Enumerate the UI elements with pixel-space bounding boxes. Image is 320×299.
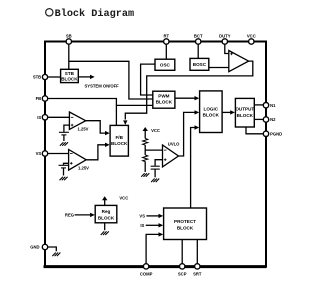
svg-text:BLOCK: BLOCK [98, 216, 115, 221]
svg-text:RT: RT [164, 34, 170, 39]
svg-text:OSC: OSC [160, 62, 171, 67]
svg-text:BLOCK: BLOCK [156, 100, 173, 105]
svg-text:Reg: Reg [102, 209, 111, 214]
svg-text:BLOCK: BLOCK [203, 113, 220, 118]
svg-text:BOSC: BOSC [193, 62, 207, 67]
svg-text:REG: REG [65, 213, 74, 218]
svg-text:1.25V: 1.25V [78, 127, 89, 132]
svg-text:BLOCK: BLOCK [111, 141, 128, 146]
svg-text:DUTY: DUTY [219, 34, 231, 39]
svg-text:STB: STB [33, 75, 41, 80]
svg-text:COMP: COMP [140, 272, 153, 277]
svg-text:GND: GND [30, 245, 39, 250]
svg-text:F/B: F/B [115, 135, 123, 140]
svg-text:VS: VS [36, 151, 42, 156]
svg-text:1.25V: 1.25V [78, 165, 89, 170]
svg-text:SCP: SCP [178, 272, 187, 277]
svg-text:LOGIC: LOGIC [204, 106, 219, 111]
svg-text:VCC: VCC [151, 128, 160, 133]
svg-text:PGND: PGND [270, 131, 282, 136]
svg-text:IS: IS [37, 115, 41, 120]
svg-text:SYSTEM ON/OFF: SYSTEM ON/OFF [85, 84, 120, 89]
svg-text:OUTPUT: OUTPUT [235, 107, 254, 112]
svg-text:VS: VS [139, 214, 145, 219]
svg-text:N1: N1 [270, 103, 276, 108]
svg-text:VCC: VCC [119, 196, 128, 201]
svg-text:BLOCK: BLOCK [237, 113, 254, 118]
svg-text:VCC: VCC [247, 34, 256, 39]
svg-text:N2: N2 [270, 117, 276, 122]
svg-text:FB: FB [36, 96, 42, 101]
svg-text:STB: STB [65, 71, 75, 76]
svg-text:BLOCK: BLOCK [177, 225, 194, 230]
svg-text:SRT: SRT [193, 272, 202, 277]
svg-text:IS: IS [140, 223, 144, 228]
svg-text:BCT: BCT [194, 34, 203, 39]
svg-text:BLOCK: BLOCK [61, 77, 78, 82]
svg-text:PWM: PWM [158, 93, 169, 98]
svg-text:SB: SB [66, 34, 72, 39]
svg-text:PROTECT: PROTECT [174, 219, 196, 224]
svg-text:UVLO: UVLO [168, 142, 180, 147]
svg-text:Block Diagram: Block Diagram [55, 8, 134, 20]
